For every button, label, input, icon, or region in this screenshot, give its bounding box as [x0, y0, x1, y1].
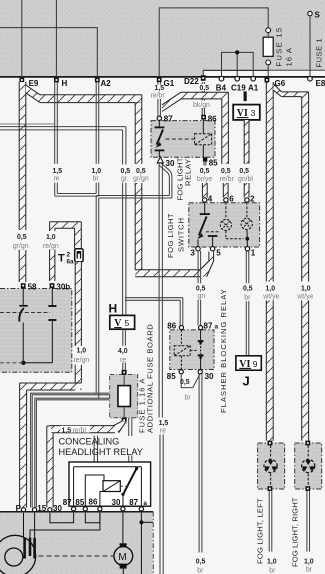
svg-text:br: br: [185, 394, 192, 401]
wire pin3 to flasher 87a (0.5 gn): [197, 251, 199, 283]
relay pin 86: [201, 115, 206, 120]
svg-text:a: a: [215, 324, 219, 331]
svg-text:br/ye: br/ye: [197, 176, 212, 183]
svg-text:1,5: 1,5: [155, 85, 165, 92]
mechanical link (dashed): [166, 138, 195, 140]
switch pin 6: [224, 198, 228, 202]
wire 30 to motor: [122, 513, 124, 544]
svg-text:87: 87: [164, 114, 173, 123]
svg-text:S: S: [315, 11, 321, 20]
svg-text:re/br: re/br: [220, 176, 235, 183]
harness band pin5 stub: [209, 252, 214, 262]
fuse 15 16A (symbol): [266, 28, 271, 33]
svg-text:4,0: 4,0: [118, 348, 128, 355]
svg-text:30: 30: [112, 498, 121, 507]
svg-text:HEADLIGHT RELAY: HEADLIGHT RELAY: [59, 447, 143, 457]
relay pin 87: [72, 507, 76, 511]
terminal B4: [219, 76, 224, 81]
svg-text:br: br: [269, 567, 276, 574]
harness band down to P: [20, 390, 27, 508]
wire A2 (double): [95, 82, 97, 164]
svg-text:re/br: re/br: [151, 93, 166, 100]
svg-text:0,5: 0,5: [200, 168, 210, 175]
svg-text:bk/gn: bk/gn: [193, 102, 210, 109]
relay pin 30 (triangle): [157, 157, 163, 163]
flasher pin 87a: [199, 326, 203, 330]
harness band diagonal to fog switch 6: [162, 92, 181, 111]
headlight motor module boundary: [0, 511, 153, 513]
harness E9 vertical band: [19, 82, 26, 230]
bus node B4-C19-A1: [222, 52, 254, 76]
svg-text:A2: A2: [101, 79, 112, 88]
svg-text:E9: E9: [29, 79, 39, 88]
switch contact 58 (inside): [22, 288, 24, 305]
flasher coil (dashed rect): [174, 346, 190, 356]
wire A2 feed (L-shape, in board): [0, 28, 97, 77]
svg-text:RELAY: RELAY: [184, 158, 193, 186]
svg-text:5: 5: [216, 248, 221, 257]
fog light left bottom pin: [268, 486, 273, 491]
svg-text:0,5: 0,5: [180, 379, 190, 386]
label 1.5 re/bl: [61, 426, 91, 433]
harness band to pin 4: [202, 183, 207, 198]
wire V5 to fuse (4.0 re): [122, 329, 124, 346]
wire bundle down to fuse board: [95, 196, 97, 394]
harness band down to gr/gn: [135, 103, 142, 164]
svg-text:re/gn: re/gn: [74, 357, 90, 364]
fog light right (box): [295, 443, 322, 489]
mechanical link coil-blade (dashed): [120, 485, 129, 487]
svg-text:0,5: 0,5: [221, 168, 231, 175]
svg-text:30: 30: [166, 159, 175, 168]
net name I: [244, 91, 247, 101]
svg-text:G1: G1: [164, 79, 175, 88]
terminal 15: [32, 508, 36, 512]
lamp feed wires (dashed): [225, 202, 227, 219]
terminal A1: [251, 76, 256, 81]
switch pin 4: [203, 198, 207, 202]
harness band G6 down (1.0 wt/ye left): [266, 82, 273, 282]
wire E9 feed (vertical, in board): [21, 0, 23, 77]
svg-text:CONCEALING: CONCEALING: [59, 437, 120, 447]
node junction (switch common): [23, 362, 52, 364]
svg-text:A1: A1: [248, 84, 259, 93]
harness band corner left: [20, 383, 82, 390]
terminal 30b: [50, 283, 55, 288]
svg-text:gr/gn: gr/gn: [13, 243, 29, 250]
harness band to terminal 58: [19, 250, 26, 282]
flasher blocking relay (box): [170, 330, 214, 370]
fog light left (box): [258, 443, 285, 489]
fuse 1 16A element: [118, 386, 130, 407]
junction dot C19 bus: [235, 50, 239, 54]
wire G1 to relay 87 (1.5 re/br): [157, 82, 159, 85]
svg-text:87: 87: [204, 322, 213, 331]
terminal 30 (module): [48, 508, 52, 512]
svg-text:FLASHER BLOCKING RELAY: FLASHER BLOCKING RELAY: [219, 288, 228, 413]
switch pin 3: [196, 247, 200, 251]
harness band horizontal run to pin6: [181, 92, 228, 99]
svg-text:T: T: [58, 252, 65, 264]
wire fuse output to G6: [267, 65, 269, 78]
fog light left top pin: [268, 441, 273, 446]
svg-text:1,5: 1,5: [62, 428, 72, 435]
harness band down to fog switch 6: [222, 99, 229, 164]
link brushes to motor (dashed): [39, 555, 114, 557]
mechanical link (dashed): [190, 349, 197, 351]
svg-text:FOG LIGHT: FOG LIGHT: [166, 213, 175, 258]
fuse 1 16A pin bottom: [122, 418, 127, 423]
harness band VI3 to pin2: [244, 120, 249, 164]
svg-text:D22: D22: [184, 77, 199, 86]
wire flasher 86 feed (from 0.5 gr pair): [125, 297, 183, 299]
junction dot pin1: [245, 237, 249, 241]
svg-text:FOG LIGHT, RIGHT: FOG LIGHT, RIGHT: [291, 497, 300, 567]
wire rails to additional fuse board: [31, 393, 110, 507]
svg-text:6a: 6a: [67, 259, 75, 266]
flasher pin 85: [179, 370, 183, 374]
svg-text:30: 30: [205, 372, 214, 381]
svg-text:E8: E8: [316, 79, 325, 88]
concealing headlight relay (box): [69, 462, 151, 506]
wire D22 to relay 86 (0.5 bk/gn): [201, 82, 203, 84]
harness horizontal band (E9 run): [40, 95, 142, 103]
relay contact blade: [123, 468, 137, 494]
strap 85 to 30: [181, 374, 199, 388]
svg-text:H: H: [109, 302, 118, 316]
relay top rail: [74, 466, 142, 468]
strap 85-86: [85, 513, 100, 523]
svg-text:re: re: [160, 428, 166, 435]
wire pin1 to VI9 (0.5 br): [245, 251, 247, 283]
svg-text:wt/ye: wt/ye: [296, 294, 313, 301]
svg-text:1,0: 1,0: [92, 168, 102, 175]
connector T2/6a band from 30b: [50, 228, 55, 231]
relay 85 leg to coil: [85, 475, 104, 507]
svg-text:85: 85: [209, 158, 218, 167]
switch contact (inside): [204, 202, 206, 213]
wire 87a down: [140, 513, 142, 574]
svg-text:gn: gn: [198, 293, 206, 300]
svg-text:FUSE 1: FUSE 1: [315, 38, 324, 68]
svg-text:wt/ye: wt/ye: [262, 294, 279, 301]
svg-text:re/gn: re/gn: [43, 243, 59, 250]
relay pin 86: [98, 507, 102, 511]
svg-text:re/bl: re/bl: [73, 428, 87, 435]
wire S to E8: [309, 16, 311, 77]
connector T2/6a: [75, 249, 83, 262]
harness band down (1.0 wt/ye right): [302, 97, 309, 282]
module boundary line (top): [0, 76, 325, 78]
svg-text:30b: 30b: [56, 282, 70, 291]
relay pin 85: [83, 507, 87, 511]
wire D22 bus to fuse column: [203, 71, 268, 77]
terminal S: [308, 11, 312, 15]
terminal A2: [95, 78, 100, 83]
wire flasher 30 down (0.5 br): [198, 374, 200, 553]
svg-text:1: 1: [251, 248, 256, 257]
svg-text:87: 87: [63, 498, 72, 507]
central electric board (shaded module, top): [0, 0, 325, 70]
contact 5 (inside): [212, 237, 214, 247]
relay pin 30: [121, 507, 125, 511]
flasher pin 30: [198, 370, 202, 374]
terminal P: [21, 508, 25, 512]
svg-text:1,0: 1,0: [266, 286, 276, 293]
svg-text:0,5: 0,5: [136, 168, 146, 175]
wire P to brush: [23, 513, 25, 538]
relay pin 87: [157, 116, 161, 120]
harness band jog G6 to right lamp: [273, 84, 281, 97]
svg-text:16 A: 16 A: [285, 47, 294, 67]
svg-text:0,5: 0,5: [196, 559, 206, 566]
svg-text:0,5: 0,5: [243, 286, 253, 293]
svg-text:86: 86: [167, 322, 176, 331]
svg-text:9: 9: [253, 359, 258, 369]
switch pin 2: [245, 198, 249, 202]
wire 15 to brush: [34, 513, 36, 538]
svg-text:1,0: 1,0: [46, 234, 56, 241]
wire off-page (dashed): [0, 362, 23, 364]
svg-text:1,5: 1,5: [159, 420, 169, 427]
svg-text:2: 2: [250, 195, 255, 204]
svg-text:gr.: gr.: [121, 175, 129, 182]
wire relay 30 down (1.5 re): [158, 164, 160, 418]
wire fog light right ground (1.0 br): [306, 491, 308, 552]
harness E9 elbow to horizontal band: [26, 85, 40, 103]
mechanical link (dashed): [0, 312, 50, 314]
relay 87 leg: [73, 467, 75, 507]
reference box VI9: [236, 356, 261, 370]
svg-text:J: J: [243, 374, 250, 389]
motor M: [120, 543, 127, 548]
svg-text:H: H: [62, 79, 68, 88]
contact 30b (inside): [51, 288, 53, 306]
svg-text:0,5: 0,5: [121, 168, 131, 175]
fog light right bottom pin: [305, 486, 310, 491]
terminal E8: [308, 76, 313, 81]
fog light right lamp: [302, 459, 315, 472]
wire G1 to fuse 15 (top rail): [159, 8, 268, 77]
wire fuse board to relay coil: [93, 436, 95, 467]
relay 87a leg: [140, 467, 142, 507]
indicator lamp (dashed circle): [241, 218, 252, 229]
svg-text:85: 85: [75, 498, 84, 507]
svg-text:85: 85: [167, 372, 176, 381]
reference box VI3: [233, 105, 260, 120]
wire H elbow right: [55, 195, 99, 197]
svg-text:C19: C19: [231, 84, 246, 93]
edge of shaded board (right part): [203, 69, 325, 71]
svg-text:2: 2: [67, 252, 71, 259]
headlight switch (shaded box): [0, 289, 72, 373]
svg-text:1,0: 1,0: [77, 348, 87, 355]
svg-text:gr/gn: gr/gn: [133, 175, 149, 182]
fuse 1 16A pin top: [122, 370, 127, 375]
illumination lamp (dashed circle): [220, 219, 231, 230]
additional fuse board (shaded block): [110, 375, 138, 418]
relay coil: [103, 481, 120, 492]
svg-text:br: br: [197, 567, 204, 574]
svg-text:1,0: 1,0: [304, 559, 314, 566]
svg-text:58: 58: [28, 282, 37, 291]
wire fuse board second output: [128, 418, 130, 436]
svg-text:86: 86: [208, 114, 217, 123]
fog light right top pin: [305, 441, 310, 446]
fog light left lamp: [264, 459, 277, 472]
svg-text:re: re: [54, 175, 60, 182]
wire from fog relay 30 (elbow down-left): [162, 164, 172, 199]
terminal E9: [19, 78, 24, 83]
lamp ground to pin 1: [246, 230, 248, 247]
svg-text:6: 6: [229, 195, 234, 204]
harness band T6a down: [75, 262, 81, 346]
svg-text:br: br: [244, 294, 251, 301]
svg-text:FUSE 15: FUSE 15: [275, 27, 284, 67]
relay coil (right, dashed): [195, 134, 212, 145]
harness band to terminal 30b: [50, 250, 55, 281]
terminal C19: [235, 76, 240, 81]
svg-text:ADDITIONAL FUSE BOARD: ADDITIONAL FUSE BOARD: [146, 324, 155, 433]
svg-text:1,5: 1,5: [53, 168, 63, 175]
svg-text:FOG LIGHT, LEFT: FOG LIGHT, LEFT: [255, 498, 264, 564]
svg-text:SWITCH: SWITCH: [177, 217, 186, 252]
reference box V5: [110, 315, 135, 329]
svg-text:1,0: 1,0: [301, 286, 311, 293]
junction dot 87a: [139, 520, 143, 524]
commutator brushes: [23, 538, 26, 559]
svg-text:86: 86: [89, 497, 98, 506]
terminal D22: [201, 75, 206, 81]
svg-text:0,5: 0,5: [200, 85, 210, 92]
harness band to pin 6: [223, 183, 228, 198]
drive wheel (big circle): [0, 535, 36, 574]
terminal G6: [265, 78, 270, 83]
relay pin 85: [203, 157, 207, 161]
svg-text:br: br: [93, 175, 100, 182]
harness band down to 30: [47, 433, 53, 508]
fog light relay (box): [151, 121, 215, 158]
svg-text:br: br: [306, 567, 313, 574]
harness band gr/gn lower run: [135, 183, 142, 270]
terminal 58: [21, 283, 26, 288]
flasher pin 86: [179, 326, 183, 330]
headlight motor module (shaded): [0, 513, 153, 574]
svg-text:87: 87: [129, 498, 138, 507]
svg-text:3: 3: [251, 108, 256, 118]
switch pin 1: [245, 247, 249, 251]
wire fog light left ground (1.0 br): [268, 491, 270, 552]
svg-text:0,5: 0,5: [196, 286, 206, 293]
fog light switch (box): [189, 203, 260, 247]
wire 86 to brushes: [30, 513, 100, 538]
terminal H: [54, 78, 59, 83]
harness band 1.5 re/bl (to relay 30): [51, 426, 115, 433]
svg-text:B4: B4: [216, 84, 227, 93]
mechanical link (dashed): [206, 231, 220, 233]
svg-text:1,0: 1,0: [267, 559, 277, 566]
relay contact (left): [158, 121, 160, 127]
svg-text:0,5: 0,5: [17, 234, 27, 241]
terminal G1: [157, 77, 162, 82]
svg-text:5: 5: [125, 318, 130, 328]
svg-text:gn/bl: gn/bl: [238, 176, 253, 183]
svg-text:a: a: [143, 500, 147, 507]
harness band to pin 2: [244, 183, 249, 198]
strap 30-87: [50, 513, 74, 523]
wire relay 85 to switch 4 (0.5 br/ye): [203, 162, 205, 166]
wire 0.5 gr from page edge: [0, 126, 126, 128]
svg-text:0,5: 0,5: [239, 168, 249, 175]
wire H (double): [54, 82, 56, 164]
relay pin 87a: [139, 507, 143, 511]
harness band T6a lower: [75, 365, 81, 383]
harness band corner to fog switch 5: [135, 270, 200, 277]
svg-text:3: 3: [190, 248, 195, 257]
svg-text:M: M: [118, 552, 126, 563]
switch pin 5: [210, 247, 214, 251]
svg-text:4: 4: [208, 195, 213, 204]
wire H feed (vertical, in board): [55, 0, 57, 77]
relay 86 leg to coil: [100, 492, 103, 507]
wire fuse output elbow: [114, 421, 127, 433]
flasher contact: [200, 330, 202, 341]
